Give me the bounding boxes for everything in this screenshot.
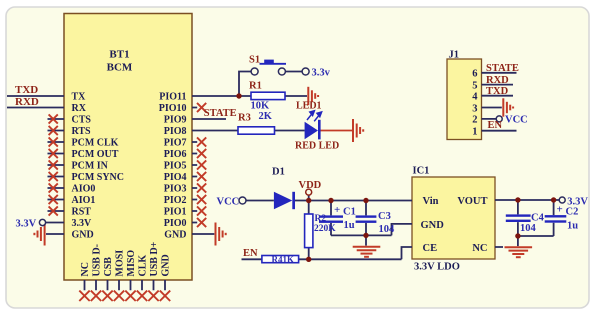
svg-text:R3: R3	[238, 113, 251, 124]
svg-text:3: 3	[472, 103, 477, 114]
svg-text:USB D+: USB D+	[149, 241, 160, 276]
svg-text:RX: RX	[72, 103, 87, 114]
svg-text:RST: RST	[72, 207, 92, 218]
svg-text:CTS: CTS	[72, 115, 92, 126]
svg-text:NC: NC	[80, 262, 91, 276]
svg-text:PIO5: PIO5	[164, 161, 187, 172]
svg-text:PCM IN: PCM IN	[72, 161, 109, 172]
svg-text:EN: EN	[243, 248, 258, 259]
svg-text:C4: C4	[531, 212, 545, 223]
svg-text:PIO4: PIO4	[164, 172, 187, 183]
svg-text:PCM OUT: PCM OUT	[72, 149, 119, 160]
svg-text:104: 104	[520, 223, 537, 234]
svg-text:1: 1	[472, 127, 477, 138]
svg-text:3.3V: 3.3V	[16, 218, 37, 229]
svg-text:3.3v: 3.3v	[312, 67, 331, 78]
svg-text:TXD: TXD	[486, 86, 509, 97]
svg-text:RXD: RXD	[486, 75, 509, 86]
svg-text:PCM CLK: PCM CLK	[72, 138, 119, 149]
svg-text:MOSI: MOSI	[114, 250, 125, 277]
svg-text:STATE: STATE	[204, 108, 237, 119]
svg-text:+: +	[557, 203, 563, 215]
svg-text:J1: J1	[449, 50, 460, 61]
svg-text:AIO0: AIO0	[72, 184, 96, 195]
svg-text:220K: 220K	[314, 224, 336, 234]
svg-text:5: 5	[472, 80, 477, 91]
svg-text:BT1: BT1	[109, 49, 129, 61]
svg-text:C2: C2	[566, 206, 579, 217]
svg-text:VCC: VCC	[217, 196, 240, 207]
svg-text:CE: CE	[423, 243, 438, 254]
svg-text:GND: GND	[421, 220, 445, 231]
svg-text:IC1: IC1	[413, 165, 430, 176]
svg-text:CLK: CLK	[137, 255, 148, 277]
svg-text:BCM: BCM	[107, 62, 133, 74]
svg-text:104: 104	[379, 224, 396, 235]
svg-text:R1: R1	[249, 81, 262, 92]
svg-text:PIO6: PIO6	[164, 149, 187, 160]
svg-text:1u: 1u	[567, 220, 578, 231]
svg-text:AIO1: AIO1	[72, 195, 96, 206]
svg-text:VCC: VCC	[505, 114, 528, 125]
svg-text:S1: S1	[249, 54, 260, 65]
svg-text:TXD: TXD	[15, 84, 38, 96]
svg-text:R41K: R41K	[272, 254, 295, 264]
svg-text:VDD: VDD	[299, 180, 322, 191]
svg-text:C1: C1	[343, 206, 356, 217]
svg-text:PIO10: PIO10	[159, 103, 187, 114]
svg-text:R2: R2	[315, 214, 327, 224]
svg-text:3.3V: 3.3V	[567, 196, 588, 207]
svg-text:PIO1: PIO1	[164, 207, 187, 218]
svg-text:PIO9: PIO9	[164, 115, 187, 126]
svg-text:MISO: MISO	[126, 250, 137, 277]
svg-text:10K: 10K	[251, 101, 271, 112]
svg-text:C3: C3	[378, 211, 391, 222]
svg-text:PIO11: PIO11	[159, 92, 186, 103]
svg-text:1u: 1u	[344, 220, 355, 231]
svg-text:RTS: RTS	[72, 126, 92, 137]
svg-text:4: 4	[472, 92, 478, 103]
svg-text:RED LED: RED LED	[295, 140, 339, 151]
svg-text:VOUT: VOUT	[457, 196, 487, 207]
svg-text:2: 2	[472, 115, 477, 126]
svg-text:PIO0: PIO0	[164, 218, 187, 229]
svg-text:6: 6	[472, 69, 477, 80]
svg-text:STATE: STATE	[486, 63, 519, 74]
svg-text:CSB: CSB	[103, 257, 114, 277]
svg-text:EN: EN	[488, 120, 503, 131]
svg-text:Vin: Vin	[423, 196, 439, 207]
svg-text:RXD: RXD	[15, 96, 39, 108]
svg-text:GND: GND	[164, 230, 186, 241]
svg-text:2K: 2K	[259, 111, 273, 122]
svg-text:NC: NC	[472, 243, 487, 254]
svg-text:GND: GND	[160, 254, 171, 276]
svg-text:PIO3: PIO3	[164, 184, 187, 195]
svg-text:+: +	[334, 204, 340, 216]
svg-text:TX: TX	[72, 92, 87, 103]
svg-text:PIO2: PIO2	[164, 195, 187, 206]
svg-text:GND: GND	[72, 230, 94, 241]
svg-text:LED1: LED1	[296, 100, 322, 111]
svg-text:PIO7: PIO7	[164, 138, 187, 149]
svg-text:D1: D1	[272, 166, 285, 177]
svg-text:3.3V: 3.3V	[72, 218, 93, 229]
svg-text:PIO8: PIO8	[164, 126, 187, 137]
svg-text:3.3V LDO: 3.3V LDO	[414, 262, 460, 273]
svg-text:PCM SYNC: PCM SYNC	[72, 172, 125, 183]
svg-text:USB D-: USB D-	[91, 244, 102, 277]
